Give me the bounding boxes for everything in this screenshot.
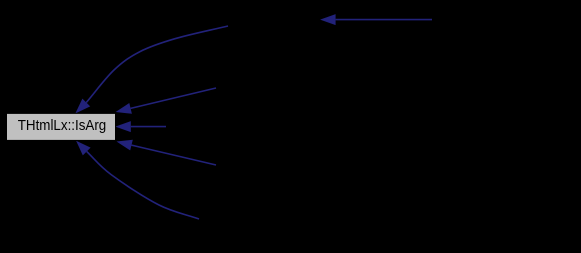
wire edge F (bottom caller curve into node bottom) bbox=[76, 141, 199, 219]
node THtmlLx::IsArg (current function box) bbox=[7, 113, 116, 140]
wire edge D (middle caller horizontal line into node right edge) bbox=[115, 121, 166, 132]
wire edge C (upper-right caller line into node top-right corner) bbox=[116, 88, 216, 114]
wire edge B (top caller curve into node top) bbox=[75, 26, 228, 114]
svg-text:THtmlLx::IsArg: THtmlLx::IsArg bbox=[18, 118, 107, 134]
wire edge E (lower-right caller line into node bottom-right corner) bbox=[117, 140, 217, 165]
wire edge A (far-right caller to middle caller node) bbox=[320, 14, 432, 25]
